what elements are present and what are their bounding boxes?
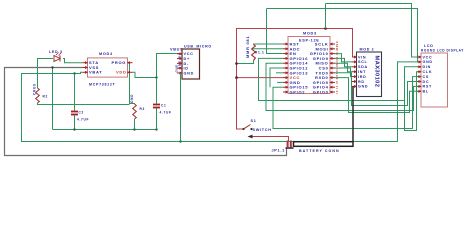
wire R2 bottom to GND line A — [38, 103, 130, 105]
wire ESP top VCC tap — [325, 4, 327, 29]
wire LCD DIN riser — [405, 67, 422, 101]
svg-text:M1: M1 — [335, 60, 339, 65]
wire R1 bottom to rail — [237, 61, 254, 64]
svg-text:JP1.1: JP1.1 — [272, 149, 285, 153]
svg-text:D-: D- — [178, 58, 182, 62]
svg-text:R2: R2 — [43, 95, 48, 99]
svg-text:4.7UF: 4.7UF — [160, 111, 172, 115]
svg-text:BL: BL — [423, 90, 429, 94]
svg-text:MOD3: MOD3 — [303, 32, 317, 36]
wire GPIO15 to CS line — [273, 77, 421, 129]
svg-text:GPIO2: GPIO2 — [290, 90, 306, 95]
connector JP1 pad — [272, 141, 294, 153]
svg-text:SWITCH: SWITCH — [253, 128, 272, 132]
node arrow at switch — [248, 135, 253, 139]
svg-text:SDA: SDA — [358, 65, 368, 69]
ESP right red net labels — [335, 41, 339, 94]
node junction gnddrop-gray — [51, 66, 53, 68]
node junction C1-bus — [155, 128, 157, 130]
svg-text:CLK: CLK — [423, 70, 433, 74]
pin stubs MOD2 left — [352, 57, 357, 86]
pin stubs LCD left — [418, 57, 422, 91]
svg-text:GND: GND — [184, 71, 195, 75]
wire LED anode to R2 — [38, 59, 54, 89]
wire VDD net to C1 and USB VCC — [133, 54, 183, 78]
wire GPIO10 to SCL — [335, 54, 352, 62]
svg-text:VBAT: VBAT — [89, 70, 102, 75]
wire PROG vertical — [130, 63, 135, 104]
ESP right pin stubs — [330, 44, 335, 92]
node junction VDD-C1 — [155, 76, 157, 78]
svg-text:RST: RST — [423, 85, 433, 89]
wire RXD0 to BL line — [335, 78, 421, 113]
wire GPIO16 to bundle CLK line — [259, 58, 422, 130]
svg-text:GND: GND — [423, 60, 433, 64]
wire switch to JP1 red — [251, 137, 289, 142]
wire MISO to INT — [335, 63, 352, 71]
wire top rail upper to LCD VCC — [326, 4, 422, 58]
svg-text:ROUND LCD DISPLAY: ROUND LCD DISPLAY — [421, 49, 464, 53]
capacitor C1 — [153, 104, 172, 115]
svg-text:I5: I5 — [335, 80, 339, 84]
connector battery box — [294, 142, 354, 153]
resistor R2 — [36, 88, 48, 103]
svg-text:GND: GND — [175, 64, 179, 72]
svg-text:I4: I4 — [335, 85, 339, 89]
svg-text:RD: RD — [358, 80, 365, 84]
svg-text:BATTERY CONN: BATTERY CONN — [299, 149, 340, 153]
switch S1 — [242, 119, 271, 132]
svg-text:S1: S1 — [251, 119, 257, 123]
svg-text:R0: R0 — [335, 74, 339, 79]
svg-text:C0: C0 — [335, 65, 339, 70]
wire C2 bottom — [74, 116, 76, 130]
svg-text:MOD 2: MOD 2 — [360, 48, 375, 52]
op-amp MOD4 MCP73812T box — [88, 52, 128, 87]
svg-text:GPIO0: GPIO0 — [313, 90, 329, 95]
wire GND drop x52 — [52, 68, 54, 130]
node junction usbgnd-loop — [179, 140, 181, 142]
ESP left pin stubs — [283, 44, 288, 92]
svg-text:GND: GND — [130, 94, 134, 103]
svg-text:INT: INT — [358, 70, 366, 74]
svg-text:VBUS: VBUS — [170, 48, 183, 52]
svg-text:D+: D+ — [178, 53, 182, 58]
svg-text:DC: DC — [423, 80, 430, 84]
resistor R3 — [133, 104, 145, 119]
wire TXD0 to DC line — [335, 73, 421, 106]
wire EN from rail lower — [267, 9, 284, 54]
capacitor C2 — [71, 111, 89, 122]
display LCD box — [421, 44, 464, 107]
wire VBAT green loop — [22, 62, 422, 142]
svg-text:VCC: VCC — [423, 55, 433, 59]
wire battery-minus gray loop — [5, 68, 287, 156]
ESP left pin names — [290, 42, 309, 95]
pin stubs MOD4 left — [83, 63, 88, 73]
svg-text:R1.1: R1.1 — [255, 51, 265, 55]
wire R1 top to RST — [254, 43, 284, 46]
svg-text:I0: I0 — [335, 90, 339, 94]
svg-text:IRD: IRD — [358, 75, 366, 79]
wire C2 top branch — [74, 74, 76, 111]
LED D3 — [54, 53, 61, 62]
module MOD3 ESP-12E box — [288, 32, 330, 94]
svg-text:USB_MICRO: USB_MICRO — [184, 45, 212, 49]
svg-text:R3: R3 — [140, 107, 145, 111]
wire GPIO9 to SDA — [335, 58, 352, 66]
wire top rail lower to LCD GND — [267, 9, 418, 62]
node junction vcc-rail — [235, 76, 238, 79]
svg-text:ID: ID — [184, 67, 189, 71]
wire R3 bottom — [134, 119, 136, 130]
wire GPIO13 stub — [276, 72, 283, 74]
svg-text:T0: T0 — [335, 70, 339, 75]
node junction R1-rail — [235, 62, 238, 65]
svg-text:VIN: VIN — [358, 55, 366, 59]
ESP right pin names — [310, 42, 329, 95]
wire ADC — [253, 48, 284, 50]
svg-text:MCP73812T: MCP73812T — [89, 83, 116, 87]
svg-text:DIN: DIN — [423, 65, 431, 69]
resistor R1.1 — [252, 45, 265, 61]
wire USB GND drop — [180, 73, 182, 142]
wire CS0 to IRD — [335, 68, 352, 77]
svg-text:SCL: SCL — [358, 60, 368, 64]
node junction C2-VBAT — [73, 72, 75, 74]
svg-text:MAX30102: MAX30102 — [374, 56, 380, 88]
svg-text:LCD: LCD — [424, 44, 434, 48]
svg-text:MOD4: MOD4 — [99, 52, 113, 56]
svg-text:4.7UF: 4.7UF — [77, 118, 89, 122]
sensor MOD 2 MAX30102 box — [357, 48, 382, 97]
wire GND bus bottom — [53, 129, 157, 131]
svg-text:S2: S2 — [335, 41, 339, 46]
svg-text:CS: CS — [423, 75, 430, 79]
svg-text:PROG: PROG — [112, 60, 127, 65]
wire LED cathode to STA — [63, 59, 83, 63]
svg-text:VCC: VCC — [184, 52, 194, 56]
svg-text:D+: D+ — [184, 57, 190, 61]
wire C1 bottom — [156, 109, 158, 130]
wire ESP VCC red — [237, 77, 285, 79]
node junction C2-bus — [73, 128, 75, 130]
node junction R3-bus — [133, 128, 135, 130]
svg-text:VDD: VDD — [116, 70, 127, 75]
pin stubs MOD4 right — [128, 63, 133, 73]
node junction rail-ESPtop — [324, 27, 327, 30]
wire GPIO12 drop — [270, 68, 283, 87]
svg-text:MMR 081: MMR 081 — [245, 36, 250, 58]
wire GPIO14 to LCD RST line — [266, 63, 421, 110]
svg-text:M2: M2 — [335, 45, 339, 50]
wire C1 top lead — [156, 78, 158, 104]
pin stubs USB left + vertical labels — [175, 53, 183, 73]
svg-text:C1: C1 — [161, 104, 166, 108]
wire battery minus black riser — [352, 86, 354, 141]
svg-text:D-: D- — [184, 62, 189, 66]
wire switched power rail red — [237, 29, 357, 130]
connector USB_MICRO box — [182, 45, 212, 80]
wire ESP GND stub — [277, 81, 283, 83]
svg-text:GND: GND — [358, 85, 368, 89]
svg-text:C2: C2 — [79, 111, 84, 115]
svg-text:CRG9: CRG9 — [33, 83, 37, 95]
